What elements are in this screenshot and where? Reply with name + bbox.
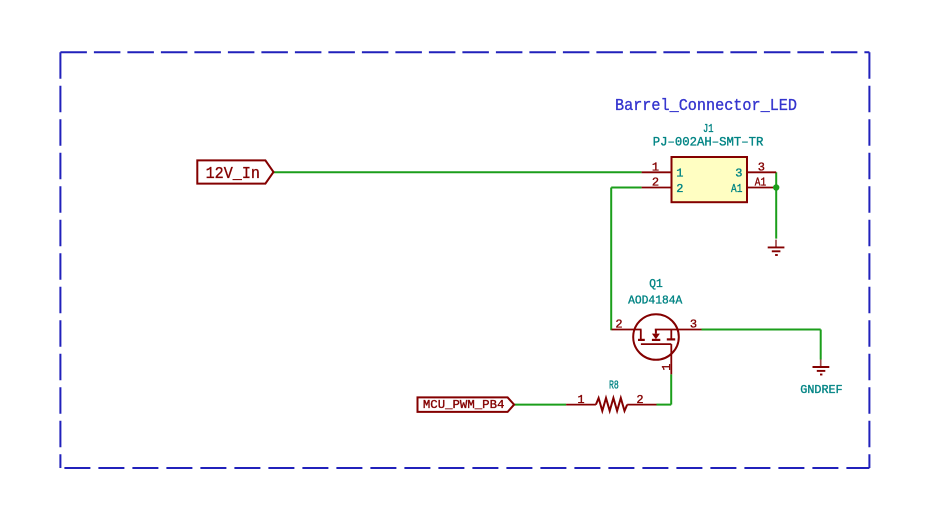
wire corner to R8 pin2 bbox=[657, 404, 672, 406]
svg-text:J1: J1 bbox=[703, 122, 714, 136]
Q1 body circle bbox=[633, 314, 679, 360]
wire down from J1 pin2 to Q1 pin 2 bbox=[610, 188, 612, 331]
J1 pin 1 bbox=[642, 171, 672, 173]
svg-text:1: 1 bbox=[652, 161, 659, 175]
svg-text:3: 3 bbox=[690, 318, 697, 332]
Q1 substrate line bbox=[641, 343, 671, 345]
wire Q1 pin1 down bbox=[670, 374, 672, 404]
wire down to GNDREF bbox=[820, 330, 822, 360]
power symbol GNDREF bbox=[800, 359, 842, 397]
R8 pin 2 lead bbox=[627, 404, 656, 406]
R8 pin 1 lead bbox=[566, 404, 596, 406]
svg-text:1: 1 bbox=[660, 364, 674, 371]
wire J1 pin3 down to ground bbox=[775, 172, 777, 238]
svg-text:MCU_PWM_PB4: MCU_PWM_PB4 bbox=[423, 399, 505, 412]
svg-text:3: 3 bbox=[735, 167, 742, 181]
transistor Q1 AOD4184A bbox=[612, 277, 702, 375]
svg-text:AOD4184A: AOD4184A bbox=[628, 293, 683, 307]
Q1 pin 1 vertical bbox=[670, 344, 672, 374]
hierarchical label 12V_In bbox=[197, 160, 273, 184]
resistor R8 bbox=[566, 378, 656, 411]
hierarchical label MCU_PWM_PB4 bbox=[418, 397, 515, 412]
svg-text:3: 3 bbox=[758, 161, 765, 175]
Q1 gate bar bbox=[640, 330, 642, 340]
sheet border (dashed) bbox=[60, 52, 869, 468]
Q1 body arrow bbox=[655, 330, 657, 334]
svg-text:12V_In: 12V_In bbox=[206, 165, 260, 184]
J1 pin 2 bbox=[642, 187, 672, 189]
wire Q1 pin3 to GNDREF corner bbox=[702, 329, 821, 331]
svg-text:R8: R8 bbox=[609, 378, 619, 392]
wire MCU_PWM_PB4 label to R8 pin1 bbox=[514, 404, 566, 406]
R8 zigzag bbox=[596, 398, 627, 411]
svg-text:1: 1 bbox=[577, 393, 584, 407]
svg-text:Barrel_Connector_LED: Barrel_Connector_LED bbox=[615, 97, 797, 116]
wire 12V_In to J1 pin 1 bbox=[274, 171, 642, 173]
svg-text:PJ–002AH–SMT–TR: PJ–002AH–SMT–TR bbox=[653, 135, 764, 149]
Q1 right contact bbox=[670, 330, 672, 340]
J1 pin A1 bbox=[747, 187, 776, 189]
wire J1 pin2 left bbox=[611, 187, 641, 189]
svg-text:2: 2 bbox=[615, 318, 622, 332]
svg-text:GNDREF: GNDREF bbox=[800, 383, 842, 397]
svg-text:A1: A1 bbox=[731, 182, 742, 196]
Q1 top rail with pin 3 bbox=[655, 329, 702, 331]
svg-text:2: 2 bbox=[636, 393, 643, 407]
svg-text:2: 2 bbox=[652, 176, 659, 190]
svg-text:2: 2 bbox=[676, 182, 683, 196]
svg-text:1: 1 bbox=[676, 167, 683, 181]
svg-text:A1: A1 bbox=[755, 176, 766, 190]
ground symbol below J1 bbox=[768, 240, 785, 255]
svg-text:Q1: Q1 bbox=[649, 277, 663, 291]
Q1 gate pin segment (pin 2) bbox=[612, 329, 642, 331]
connector J1 PJ-002AH-SMT-TR bbox=[642, 122, 777, 202]
junction at J1 pin A1 bbox=[773, 184, 779, 190]
J1 pin 3 bbox=[747, 171, 776, 173]
